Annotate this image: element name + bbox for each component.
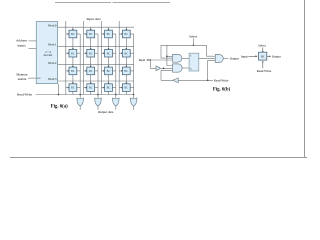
- wire output stub cell 9: [77, 70, 80, 72]
- wire input stub to cell 13: [66, 87, 69, 89]
- wire read/write riser to output AND: [208, 60, 216, 80]
- wire input stub to cell 8: [119, 52, 122, 54]
- wire select stem: [192, 38, 194, 45]
- binary cell BC16: [122, 84, 130, 92]
- svg-text:BC: BC: [124, 70, 128, 73]
- junction rail-output column 1: [79, 94, 81, 96]
- wire input stub to cell 15: [101, 87, 104, 89]
- wire output column line 1: [79, 34, 81, 98]
- svg-text:Word 1: Word 1: [48, 43, 57, 47]
- svg-text:Input: Input: [139, 58, 146, 62]
- wire read/write rail figure b: [161, 79, 213, 81]
- OR gate G2: [95, 98, 102, 110]
- wire select drop to output AND: [207, 45, 216, 56]
- wire input stub to cell 14: [84, 87, 87, 89]
- wire output column line 3: [115, 34, 117, 98]
- page rule bottom: [10, 157, 307, 159]
- wire input arrowhead cell 16: [121, 87, 123, 89]
- wire input stub to cell 12: [119, 70, 122, 72]
- wire word select arrowhead cell 10: [90, 66, 92, 68]
- inverter input buffer: [156, 66, 161, 71]
- wire input data column 3: [100, 21, 102, 95]
- junction read/write riser: [207, 80, 209, 82]
- wire word select arrowhead cell 15: [108, 83, 110, 85]
- wire input arrowhead cell 9: [68, 70, 70, 72]
- wire input arrow figure b: [147, 59, 149, 61]
- wire select drop to ANDs: [167, 45, 173, 65]
- wire input arrowhead cell 12: [121, 70, 123, 72]
- svg-text:BC: BC: [71, 33, 75, 36]
- OR gate G3: [113, 98, 120, 110]
- wire input arrowhead cell 3: [103, 33, 105, 35]
- wire input stub to cell 2: [84, 33, 87, 35]
- wire output stub cell 10: [95, 70, 98, 72]
- AND gate S upper: [173, 54, 182, 62]
- svg-text:Select: Select: [189, 34, 197, 38]
- svg-text:Word 2: Word 2: [48, 61, 57, 65]
- binary cell BC11: [105, 67, 113, 75]
- binary cell BC15: [105, 84, 113, 92]
- wire input arrowhead cell 11: [103, 70, 105, 72]
- svg-text:Address: Address: [16, 39, 28, 43]
- svg-text:Read/Write: Read/Write: [257, 69, 272, 73]
- wire address input A1: [29, 47, 37, 49]
- wire output column line 4: [133, 34, 135, 98]
- wire output arrow from BC: [267, 55, 271, 57]
- wire word line 0: [58, 26, 134, 28]
- junction rail-output column 2: [97, 94, 99, 96]
- wire input arrowhead cell 8: [121, 52, 123, 54]
- svg-text:Input: Input: [241, 55, 248, 59]
- junction select upper stub: [166, 56, 168, 58]
- wire input data column 1: [65, 21, 67, 95]
- wire word select arrowhead cell 4: [125, 29, 127, 31]
- svg-text:BC: BC: [124, 87, 128, 90]
- junction select stem: [193, 45, 195, 47]
- svg-text:BC: BC: [107, 87, 111, 90]
- binary cell BC1: [69, 30, 77, 38]
- svg-text:Output data: Output data: [98, 110, 114, 114]
- svg-text:EN: EN: [37, 77, 41, 80]
- wire output stub cell 16: [130, 87, 133, 89]
- wire input to upper AND: [147, 59, 173, 61]
- wire input stub to cell 1: [66, 33, 69, 35]
- binary cell BC13: [69, 84, 77, 92]
- svg-text:BC: BC: [124, 33, 128, 36]
- wire input arrowhead cell 14: [86, 87, 88, 89]
- wire input arrowhead cell 7: [103, 52, 105, 54]
- page rule top segment 1: [55, 2, 111, 4]
- svg-text:BC: BC: [89, 52, 93, 55]
- svg-text:Select: Select: [258, 44, 266, 48]
- junction rail-decoder corner: [58, 94, 60, 96]
- wire input arrowhead cell 2: [86, 33, 88, 35]
- binary cell BC14: [87, 84, 95, 92]
- svg-text:BC: BC: [71, 70, 75, 73]
- wire word select arrowhead cell 11: [108, 66, 110, 68]
- svg-text:enable: enable: [18, 77, 27, 81]
- BC symbol box: [259, 52, 267, 60]
- svg-text:Read/Write: Read/Write: [214, 78, 229, 82]
- svg-text:Memory: Memory: [16, 73, 28, 77]
- svg-text:BC: BC: [89, 33, 93, 36]
- wire output stub cell 1: [77, 33, 80, 35]
- wire left rail lower segment: [161, 71, 173, 81]
- AND gate output: [215, 55, 223, 63]
- OR gate G4: [130, 98, 137, 110]
- wire word select arrowhead cell 2: [90, 29, 92, 31]
- label Memory enable: [16, 73, 28, 82]
- wire input arrow into BC: [248, 55, 257, 57]
- wire output column line 2: [97, 34, 99, 98]
- wire S AND to latch: [182, 57, 189, 59]
- wire select stub to upper AND: [167, 55, 173, 57]
- wire inverter to lower AND: [161, 67, 173, 69]
- wire input arrowhead cell 15: [103, 87, 105, 89]
- wire word select arrowhead cell 16: [125, 83, 127, 85]
- svg-text:Word 0: Word 0: [48, 23, 57, 27]
- wire input stub to cell 16: [119, 87, 122, 89]
- svg-text:Fig. 6(b): Fig. 6(b): [213, 87, 231, 92]
- wire input stub to cell 3: [101, 33, 104, 35]
- wire address input A0: [29, 40, 37, 42]
- binary cell BC12: [122, 67, 130, 75]
- svg-text:Output: Output: [230, 57, 239, 61]
- wire input branch down: [150, 60, 156, 68]
- wire read/write rail figure a: [36, 94, 135, 96]
- SR latch U2: [189, 53, 199, 71]
- wire read/write column line 2: [90, 27, 92, 94]
- wire decoder corner drop: [58, 84, 60, 95]
- wire output stub cell 3: [112, 33, 115, 35]
- wire input stub to cell 7: [101, 52, 104, 54]
- wire input stub to cell 4: [119, 33, 122, 35]
- junction rail-output column 3: [115, 94, 117, 96]
- page rule right vertical: [304, 0, 306, 158]
- wire output stub cell 13: [77, 87, 80, 89]
- svg-text:Read/Write: Read/Write: [17, 93, 33, 97]
- decoder U1 (2x4 decoder with enable): [36, 22, 57, 84]
- wire input arrowhead cell 1: [68, 33, 70, 35]
- wire output stub cell 7: [112, 52, 115, 54]
- svg-text:BC: BC: [89, 87, 93, 90]
- svg-text:BC: BC: [107, 70, 111, 73]
- wire output figure b: [223, 57, 228, 59]
- wire output stub cell 12: [130, 70, 133, 72]
- wire left rail upper segment: [161, 45, 173, 58]
- svg-text:BC: BC: [89, 70, 93, 73]
- svg-text:BC: BC: [261, 55, 265, 58]
- junction input branch: [150, 59, 152, 61]
- wire word line 1: [58, 45, 134, 47]
- wire input arrowhead cell 4: [121, 33, 123, 35]
- wire input arrowhead cell 10: [86, 70, 88, 72]
- wire latch Q to output AND: [198, 57, 215, 59]
- wire input arrowhead cell 13: [68, 87, 70, 89]
- binary cell BC8: [122, 49, 130, 57]
- svg-text:Fig. 6(a): Fig. 6(a): [51, 104, 68, 109]
- svg-text:BC: BC: [107, 52, 111, 55]
- wire read/write column line 3: [108, 27, 110, 94]
- wire word select arrowhead cell 1: [72, 29, 74, 31]
- page rule top segment 2: [113, 2, 171, 4]
- wire word select arrowhead cell 13: [72, 83, 74, 85]
- wire select rail: [161, 44, 207, 46]
- wire output stub cell 2: [95, 33, 98, 35]
- OR gate G1: [77, 98, 84, 110]
- binary cell BC5: [69, 49, 77, 57]
- wire input stub to cell 11: [101, 70, 104, 72]
- svg-text:decoder: decoder: [44, 54, 53, 57]
- wire output stub cell 8: [130, 52, 133, 54]
- wire word select arrowhead cell 7: [108, 48, 110, 50]
- wire R AND to latch: [182, 67, 189, 69]
- wire word line 3: [58, 80, 134, 82]
- svg-text:Output: Output: [272, 55, 281, 59]
- wire read/write column line 4: [125, 27, 127, 94]
- wire word line 2: [58, 64, 134, 66]
- wire word select arrowhead cell 6: [90, 48, 92, 50]
- svg-text:Input data: Input data: [86, 17, 101, 21]
- svg-text:inputs: inputs: [17, 44, 26, 48]
- wire output stub cell 5: [77, 52, 80, 54]
- svg-text:BC: BC: [124, 52, 128, 55]
- svg-text:BC: BC: [71, 52, 75, 55]
- wire output stub cell 14: [95, 87, 98, 89]
- wire read/write arrow into BC bottom: [262, 61, 264, 69]
- wire select arrow into BC: [262, 48, 264, 53]
- junction rail-output column 4: [133, 94, 135, 96]
- wire word select arrowhead cell 8: [125, 48, 127, 50]
- label Address inputs: [16, 39, 28, 48]
- AND gate R lower: [173, 64, 183, 72]
- binary cell BC3: [105, 30, 113, 38]
- wire word select arrowhead cell 14: [90, 83, 92, 85]
- inverter read/write pointing left: [173, 78, 179, 83]
- binary cell BC2: [87, 30, 95, 38]
- wire word select arrowhead cell 3: [108, 29, 110, 31]
- wire input stub to cell 10: [84, 70, 87, 72]
- svg-text:BC: BC: [107, 33, 111, 36]
- wire input data column 2: [83, 21, 85, 95]
- wire output stub cell 4: [130, 33, 133, 35]
- wire memory enable: [28, 77, 36, 79]
- wire input arrowhead cell 5: [68, 52, 70, 54]
- wire read/write column line 1: [72, 27, 74, 94]
- junction inverter wire: [163, 68, 165, 70]
- wire word select arrowhead cell 12: [125, 66, 127, 68]
- svg-text:Word 3: Word 3: [48, 77, 57, 81]
- wire word select arrowhead cell 9: [72, 66, 74, 68]
- binary cell BC10: [87, 67, 95, 75]
- wire output stub cell 11: [112, 70, 115, 72]
- binary cell BC4: [122, 30, 130, 38]
- svg-text:BC: BC: [71, 87, 75, 90]
- wire word select arrowhead cell 5: [72, 48, 74, 50]
- binary cell BC9: [69, 67, 77, 75]
- binary cell BC7: [105, 49, 113, 57]
- wire input stub to cell 9: [66, 70, 69, 72]
- wire output stub cell 15: [112, 87, 115, 89]
- wire input stub to cell 6: [84, 52, 87, 54]
- wire output stub cell 6: [95, 52, 98, 54]
- wire input stub to cell 5: [66, 52, 69, 54]
- binary cell BC6: [87, 49, 95, 57]
- wire input data column 4: [118, 21, 120, 95]
- wire input arrowhead cell 6: [86, 52, 88, 54]
